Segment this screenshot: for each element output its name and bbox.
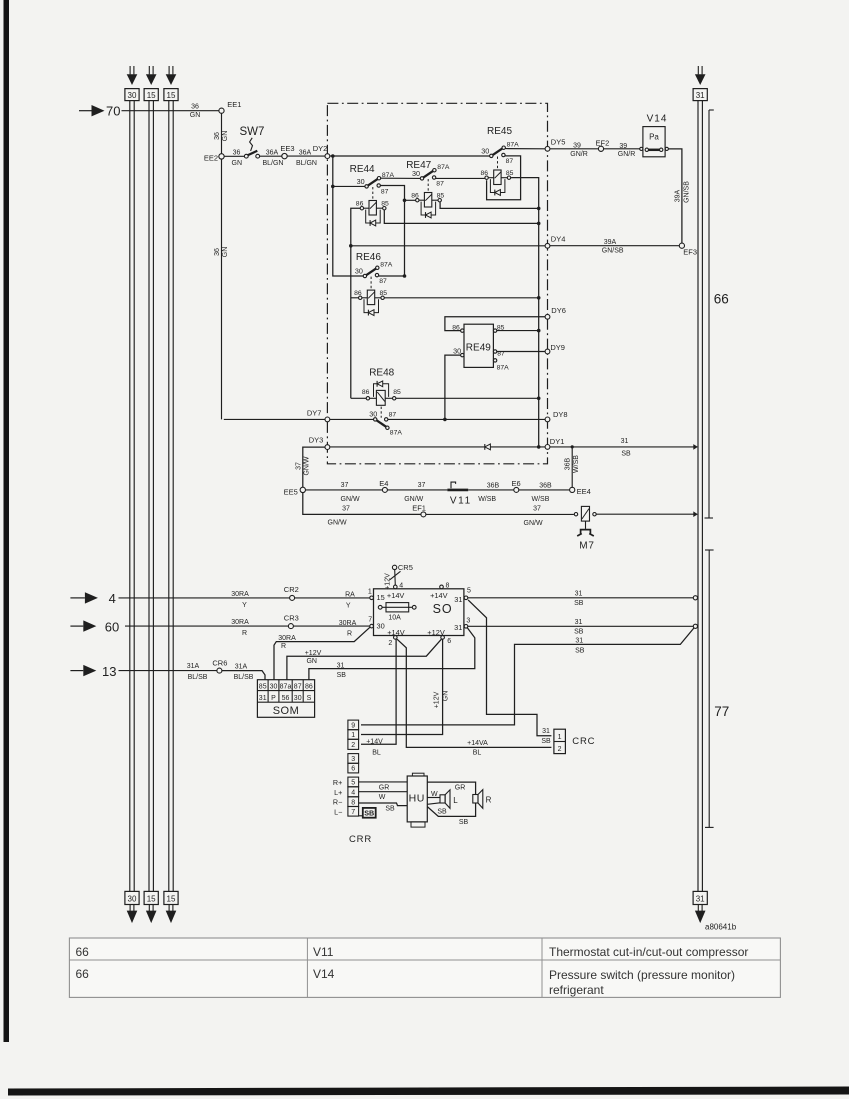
junction dot RE44-85	[537, 222, 541, 226]
node DY7	[307, 409, 330, 422]
svg-text:V14: V14	[313, 967, 335, 981]
wire GR CRR-5 to HU	[359, 781, 408, 783]
svg-text:30: 30	[128, 91, 137, 100]
svg-text:36: 36	[214, 248, 221, 256]
svg-text:SB: SB	[574, 629, 584, 636]
svg-text:31: 31	[259, 695, 267, 702]
svg-text:5: 5	[351, 780, 355, 787]
svg-text:+14V: +14V	[387, 591, 405, 600]
svg-text:SB: SB	[385, 806, 395, 813]
svg-text:87: 87	[294, 684, 302, 691]
svg-text:87: 87	[506, 158, 514, 165]
wire +12V GN SOM-87a to SO pin 6	[287, 639, 442, 680]
svg-text:31A: 31A	[187, 663, 200, 670]
arrow into bus 30 top	[127, 66, 138, 85]
wire 37 GN/W EF1 to M7	[426, 513, 574, 515]
svg-text:SO: SO	[433, 602, 453, 616]
bus 30 bottom terminal box	[125, 891, 139, 904]
svg-text:31: 31	[575, 638, 583, 645]
label 39A GN/SB vertical	[674, 181, 690, 203]
wire RE44-87 to RE47-86 and RE46-87 net	[381, 186, 405, 277]
svg-text:36: 36	[233, 149, 241, 156]
svg-text:+14VA: +14VA	[467, 740, 488, 747]
wire W CRR-4 to HU	[359, 791, 408, 793]
svg-text:31: 31	[575, 619, 583, 626]
connector CR6	[212, 659, 227, 673]
svg-text:31: 31	[337, 663, 345, 670]
interference suppressor SOM	[257, 680, 314, 718]
svg-text:BL/SB: BL/SB	[234, 674, 254, 681]
node EE2	[204, 153, 224, 162]
labels R+ L+ R- L-	[333, 778, 342, 817]
label 31 SB pin5	[574, 590, 584, 607]
arrow out of bus 15 bottom	[146, 905, 157, 924]
svg-text:EE4: EE4	[577, 487, 591, 496]
junction dot RE46-87 end	[403, 274, 407, 278]
svg-text:R−: R−	[333, 798, 342, 807]
svg-text:86: 86	[362, 389, 370, 396]
wire SB CRR-7 stub	[359, 815, 363, 817]
svg-text:8: 8	[446, 583, 450, 590]
svg-text:V11: V11	[313, 945, 334, 959]
scan edge bar bottom	[8, 1087, 849, 1096]
relay RE45 coil	[481, 170, 514, 196]
svg-text:36: 36	[191, 103, 199, 110]
arrow into bus 31 top	[695, 66, 706, 85]
label 39A GN/SB horizontal	[602, 239, 624, 255]
wire 37 GN/W EE5 to E4	[306, 489, 383, 491]
wire RE46-86 stub to 86 rail	[351, 297, 359, 299]
svg-text:3: 3	[351, 756, 355, 763]
SO fuse 10A	[378, 603, 416, 622]
node EF1	[412, 504, 426, 517]
relay RE46 coil	[354, 290, 387, 316]
label 37 GN/W seg6	[524, 505, 543, 527]
wire to RE47-86	[405, 199, 416, 201]
arrow into bus 15 top	[166, 66, 177, 85]
svg-text:EE1: EE1	[227, 100, 241, 109]
connector CRC	[554, 729, 595, 753]
wire 30RA R SOM-30 to SO pin 7	[274, 627, 370, 680]
svg-text:9: 9	[351, 723, 355, 730]
wire 31 SB SO pin 5 to bus 31	[468, 597, 694, 599]
junction dot RE49-30 on DY8 line	[443, 418, 447, 422]
svg-text:31: 31	[696, 895, 705, 904]
svg-text:GN/W: GN/W	[341, 496, 360, 503]
wire RE48-86 to 86 rail	[351, 397, 366, 399]
svg-text:31: 31	[542, 728, 550, 735]
svg-text:GR: GR	[379, 785, 390, 792]
label 36A BL/GN right	[296, 149, 317, 167]
svg-text:GN: GN	[222, 247, 229, 258]
svg-text:DY7: DY7	[307, 409, 322, 418]
svg-text:GN/W: GN/W	[524, 520, 543, 527]
svg-text:R: R	[242, 630, 247, 637]
svg-text:87: 87	[389, 412, 397, 419]
svg-text:L: L	[453, 796, 458, 805]
svg-text:GN/R: GN/R	[618, 151, 636, 158]
label 36 GN at SW7	[232, 149, 243, 167]
svg-text:EE5: EE5	[284, 487, 298, 496]
label 30RA R left	[231, 619, 249, 637]
svg-text:EF2: EF2	[596, 138, 610, 147]
SO pin 4	[394, 583, 404, 590]
relay RE45 contact 30	[481, 126, 519, 170]
section bracket 66	[705, 110, 714, 518]
svg-text:EE3: EE3	[280, 144, 294, 153]
label 36 GN vertical lower	[214, 247, 229, 258]
wire 31A BL/SB CR6 to SOM pin 85	[222, 671, 265, 680]
wire RA Y CR2 to SO pin 1	[295, 597, 370, 599]
wire DY3 branch down to EE5	[303, 447, 325, 487]
radio HU box	[407, 773, 427, 827]
wire RE45-87 loop to RE45-86	[487, 156, 521, 200]
svg-text:BL: BL	[372, 750, 381, 757]
svg-text:SOM: SOM	[273, 705, 300, 717]
label 36 GN	[190, 103, 201, 119]
label 37 GN/W seg2	[404, 482, 425, 503]
junction dot 85 rail at DY1 wire	[537, 445, 541, 449]
relay RE47 contact 30	[406, 160, 450, 192]
wire 30RA R CR3 to SO pin 7	[293, 625, 369, 627]
svg-text:30: 30	[453, 346, 461, 355]
wire DY7 line to RE48-30	[224, 418, 374, 420]
svg-text:GN: GN	[442, 691, 449, 702]
wire 37 GN/W E4 to V11	[387, 489, 447, 491]
svg-text:refrigerant: refrigerant	[549, 983, 604, 997]
label 31 SB at SOM	[337, 663, 347, 679]
svg-text:30: 30	[412, 169, 420, 178]
wire DY3 to DY1	[330, 446, 545, 448]
svg-text:86: 86	[305, 684, 313, 691]
diode on DY3-DY1 wire	[485, 444, 491, 450]
wire RE47-87 to RE45-86	[435, 177, 485, 179]
svg-text:GN: GN	[190, 112, 201, 119]
svg-text:85: 85	[259, 684, 267, 691]
bus 30 top terminal box	[125, 89, 139, 101]
bus 31 vertical double line	[698, 101, 702, 892]
svg-text:13: 13	[102, 664, 116, 679]
label 30RA Y left	[231, 591, 249, 609]
label 39 GN/R left	[570, 143, 588, 158]
node EE5	[284, 487, 306, 496]
wire to RE44-30	[333, 185, 365, 187]
svg-text:39A: 39A	[604, 239, 617, 246]
svg-text:36B: 36B	[487, 482, 500, 489]
svg-text:E4: E4	[379, 479, 388, 488]
junction dot RE48-85	[537, 397, 541, 401]
wire EE2 to SW7	[224, 155, 244, 157]
label 36 GN vertical upper	[214, 131, 229, 142]
wire RE49-30 to DY8 line	[445, 355, 461, 419]
svg-text:15: 15	[147, 91, 156, 100]
svg-text:37: 37	[533, 505, 541, 512]
svg-text:87a: 87a	[280, 684, 292, 691]
wire RE46-87 to junction	[379, 275, 405, 277]
wire SB HU to speaker L bottom	[427, 803, 440, 805]
wire 36A SW7 to EE3	[260, 155, 282, 157]
SO internal labels	[377, 591, 463, 637]
svg-text:RE44: RE44	[350, 164, 375, 175]
SO pin 7	[368, 617, 373, 628]
label +14VA BL	[467, 740, 488, 756]
svg-text:GR: GR	[455, 785, 466, 792]
wire +14V BL SO pin 2 to CRR-2	[361, 639, 396, 744]
svg-text:a80641b: a80641b	[705, 923, 737, 932]
svg-text:87: 87	[381, 188, 389, 195]
svg-text:87A: 87A	[390, 430, 403, 437]
svg-text:86: 86	[452, 325, 460, 332]
wire RE44-87A to RE47-30	[379, 177, 420, 179]
svg-text:66: 66	[714, 292, 729, 307]
svg-text:CR2: CR2	[284, 585, 299, 594]
junction dot DY4 on 86 rail	[349, 244, 353, 248]
arrow into bus 31 at M7 wire	[693, 511, 698, 517]
svg-text:37: 37	[341, 482, 349, 489]
svg-text:56: 56	[282, 695, 290, 702]
svg-text:CR5: CR5	[398, 563, 413, 572]
wire 31 SB SOM-86 to SO pin 3	[309, 628, 475, 680]
arrow out of bus 15 bottom	[166, 905, 177, 924]
relay RE48 contact 30	[369, 407, 402, 437]
svg-text:39: 39	[619, 143, 627, 150]
svg-text:87: 87	[436, 180, 444, 187]
svg-text:31: 31	[575, 590, 583, 597]
svg-text:37: 37	[418, 482, 426, 489]
node E4	[379, 479, 388, 492]
label +14V BL	[366, 738, 383, 756]
wire 36 GN EE2 down to DY7	[221, 159, 223, 419]
svg-text:SB: SB	[337, 672, 347, 679]
svg-text:87A: 87A	[497, 365, 510, 372]
svg-text:DY1: DY1	[550, 437, 565, 446]
scan edge bar left	[4, 0, 10, 1042]
svg-text:BL/SB: BL/SB	[188, 674, 208, 681]
svg-text:66: 66	[76, 945, 90, 959]
svg-text:GN: GN	[232, 160, 243, 167]
svg-text:+12V: +12V	[305, 650, 322, 657]
wire RE49-87 to DY9	[497, 351, 545, 353]
node EE1	[219, 100, 242, 113]
svg-text:4: 4	[399, 583, 403, 590]
node DY4	[545, 234, 565, 248]
svg-text:SB: SB	[621, 451, 631, 458]
svg-text:8: 8	[351, 799, 355, 806]
svg-text:GN/SB: GN/SB	[602, 248, 624, 255]
junction dot RE46-85	[537, 296, 541, 300]
svg-text:10A: 10A	[388, 614, 401, 621]
wire +14VA BL SO pin 2 to CRC-2	[397, 639, 552, 747]
svg-text:39: 39	[573, 143, 581, 150]
label 37 GN/W vertical	[295, 456, 310, 475]
node DY8	[545, 410, 567, 422]
svg-text:+12V: +12V	[384, 573, 391, 590]
wire 36B W/SB E6 to EE4	[519, 489, 570, 491]
junction dot DY2 branch	[331, 154, 335, 158]
svg-text:30: 30	[270, 684, 278, 691]
svg-text:EE2: EE2	[204, 153, 218, 162]
feed arrow 13	[70, 664, 116, 679]
svg-text:4: 4	[109, 591, 116, 606]
wire branch down to RE44-30 and RE46-30	[333, 156, 363, 276]
connector CR2	[284, 585, 299, 600]
svg-text:36B: 36B	[539, 482, 552, 489]
wire 31 SB SO pin 5 to CRC-1	[468, 600, 551, 736]
svg-text:V14: V14	[647, 114, 668, 125]
svg-text:SB: SB	[574, 600, 584, 607]
label RA Y	[345, 591, 355, 609]
SO pin 2	[388, 636, 397, 647]
svg-text:W: W	[379, 794, 386, 801]
connector CRR	[348, 720, 372, 845]
arrow into bus 31 at DY1 wire	[693, 444, 698, 450]
svg-text:31A: 31A	[235, 663, 248, 670]
arrow out of bus 30 bottom	[127, 905, 138, 924]
wire GR HU to speaker R	[427, 782, 475, 794]
wire 36 GN EE1 to EE2	[221, 113, 223, 153]
svg-text:6: 6	[447, 638, 451, 645]
svg-text:SB: SB	[364, 808, 374, 817]
wire RE44-86 down 86 rail to RE48-86	[351, 208, 362, 398]
wire RE47-85 drop	[440, 202, 539, 208]
SO pin 6	[441, 636, 451, 645]
svg-text:30RA: 30RA	[231, 591, 249, 598]
wire W HU to speaker L	[427, 797, 440, 799]
svg-text:BL/GN: BL/GN	[296, 160, 317, 167]
arrow into bus 15 top	[146, 66, 157, 85]
connector CR3	[284, 613, 299, 628]
svg-text:30: 30	[481, 146, 489, 155]
svg-text:RE49: RE49	[466, 342, 491, 353]
svg-text:EF3: EF3	[683, 248, 697, 257]
SO pin 8	[440, 583, 450, 590]
wire 30RA R to CR3	[125, 625, 288, 627]
node EF3	[679, 243, 697, 257]
wire 36A DY2 to RE45-30	[330, 155, 490, 157]
bus 15 bottom terminal box	[144, 891, 158, 904]
svg-text:5: 5	[467, 588, 471, 595]
svg-text:GN/SB: GN/SB	[683, 181, 690, 203]
svg-text:+12V: +12V	[434, 691, 441, 708]
svg-text:RE45: RE45	[487, 126, 512, 137]
node DY9	[545, 343, 565, 354]
relay RE46 contact 30	[355, 252, 393, 290]
svg-text:DY8: DY8	[553, 410, 568, 419]
svg-text:SB: SB	[459, 819, 469, 826]
svg-text:S: S	[307, 695, 312, 702]
label 31 SB at CRC	[541, 728, 551, 745]
terminal circle at bus 31 pin5 wire	[693, 596, 697, 600]
svg-text:SB: SB	[437, 808, 447, 815]
junction dot RE44-30 branch	[331, 185, 335, 189]
node E6	[512, 479, 521, 493]
svg-text:R: R	[281, 643, 286, 650]
svg-text:6: 6	[351, 766, 355, 773]
node EF2	[596, 138, 610, 151]
bus 31 top terminal box	[693, 89, 707, 101]
arrow out of bus 31 bottom	[695, 905, 706, 924]
label +12V GN vertical	[434, 691, 450, 709]
svg-text:RE46: RE46	[356, 252, 381, 263]
label +12V GN	[305, 650, 322, 665]
wire 86 rail to DY4	[351, 245, 545, 247]
label 36A BL/GN left	[262, 149, 283, 167]
svg-text:30: 30	[294, 695, 302, 702]
svg-text:DY6: DY6	[551, 306, 566, 315]
svg-text:Pressure switch (pressure moni: Pressure switch (pressure monitor)	[549, 968, 735, 982]
svg-text:37: 37	[295, 462, 302, 470]
svg-text:4: 4	[351, 789, 355, 796]
svg-text:31: 31	[696, 91, 705, 100]
svg-text:GN/R: GN/R	[570, 151, 588, 158]
svg-text:DY3: DY3	[309, 435, 324, 444]
label 31 SB HU-9	[575, 638, 585, 655]
thermostat V11	[447, 482, 471, 506]
label 36B W/SB seg3	[478, 482, 499, 503]
svg-text:36: 36	[214, 132, 221, 140]
svg-text:36A: 36A	[299, 149, 312, 156]
svg-text:GN/W: GN/W	[304, 456, 311, 475]
terminal circle at bus 31 pin3 wire	[693, 624, 697, 628]
legend table	[69, 938, 780, 997]
wire 31A BL/SB to CR6	[119, 670, 218, 672]
label 36B W/SB vertical	[565, 455, 581, 473]
svg-text:V11: V11	[450, 496, 472, 507]
wire RE46-85 to 85 rail	[384, 297, 539, 299]
connector CR5 above SO pin 4	[384, 563, 413, 590]
wire RE45-85 common 85 rail down to DY1 wire	[511, 178, 539, 447]
svg-text:R: R	[486, 796, 492, 805]
feed arrow 60	[70, 620, 119, 635]
node DY2	[325, 154, 330, 159]
relay RE44 contact 30	[350, 164, 395, 200]
svg-text:CR6: CR6	[212, 659, 227, 668]
feed arrow 4	[70, 591, 115, 606]
svg-text:15: 15	[377, 593, 385, 602]
wire RE48-87 to DY8	[388, 418, 545, 420]
svg-text:37: 37	[342, 505, 350, 512]
svg-text:30: 30	[128, 895, 137, 904]
relay RE48 coil	[362, 368, 401, 406]
svg-text:GN/W: GN/W	[328, 519, 347, 526]
bus 15 bottom terminal box	[164, 891, 178, 904]
svg-text:1: 1	[351, 732, 355, 739]
label 31 SB pin3	[574, 619, 584, 636]
svg-text:W/SB: W/SB	[478, 496, 496, 503]
vacuum motor M7	[574, 506, 596, 551]
svg-text:RE48: RE48	[369, 368, 394, 379]
node DY1	[545, 437, 564, 449]
svg-text:GN: GN	[222, 131, 229, 142]
switch SW7	[240, 126, 265, 158]
svg-text:30RA: 30RA	[231, 619, 249, 626]
label 31A BL/SB left	[187, 663, 208, 681]
svg-text:Y: Y	[346, 603, 351, 610]
bus 15 vertical double line	[149, 101, 153, 892]
svg-text:15: 15	[167, 895, 176, 904]
bus 30 vertical double line	[130, 101, 134, 892]
svg-text:BL/GN: BL/GN	[262, 160, 283, 167]
node DY3	[309, 435, 330, 449]
svg-text:P: P	[271, 695, 276, 702]
label 37 GN/W seg5	[328, 505, 350, 526]
svg-text:SW7: SW7	[240, 126, 265, 138]
svg-text:2: 2	[388, 640, 392, 647]
svg-text:31: 31	[454, 623, 462, 632]
wire SB CRR-8 to HU	[359, 803, 408, 806]
svg-text:2: 2	[351, 742, 355, 749]
speaker L	[440, 790, 458, 809]
